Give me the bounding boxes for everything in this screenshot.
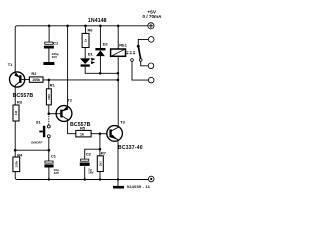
svg-text:R3: R3	[17, 99, 23, 104]
svg-text:024039 - 11: 024039 - 11	[127, 184, 151, 189]
svg-text:RE1: RE1	[119, 42, 127, 47]
svg-text:R7: R7	[101, 151, 106, 156]
svg-text:D2: D2	[103, 41, 109, 46]
svg-text:BC337-40: BC337-40	[118, 145, 143, 151]
svg-text:R4: R4	[17, 152, 23, 157]
svg-text:100k: 100k	[32, 78, 40, 82]
svg-text:1N4148: 1N4148	[88, 18, 107, 24]
svg-text:R6: R6	[88, 27, 94, 32]
svg-text:R1: R1	[50, 83, 56, 88]
svg-text:1k: 1k	[84, 39, 88, 43]
svg-text:1M: 1M	[14, 110, 18, 115]
svg-text:2M2: 2M2	[47, 94, 51, 100]
svg-text:16V: 16V	[88, 171, 94, 175]
svg-text:2k7: 2k7	[98, 161, 102, 166]
svg-text:100k: 100k	[14, 161, 18, 168]
svg-text:10V: 10V	[52, 55, 58, 59]
svg-text:C1: C1	[51, 153, 57, 158]
svg-text:0 / 70mA: 0 / 70mA	[143, 14, 163, 19]
svg-text:16V: 16V	[54, 171, 60, 175]
svg-text:C3: C3	[86, 151, 92, 156]
svg-text:C2: C2	[53, 40, 59, 45]
svg-text:BC557B: BC557B	[70, 122, 91, 128]
svg-text:D1: D1	[88, 52, 94, 57]
svg-text:BC557B: BC557B	[13, 93, 34, 99]
svg-text:T2: T2	[68, 98, 73, 103]
svg-text:S1: S1	[36, 120, 42, 125]
svg-text:T1: T1	[8, 62, 13, 67]
svg-text:ON/OFF: ON/OFF	[31, 141, 42, 145]
svg-text:R2: R2	[31, 71, 37, 76]
svg-text:1k: 1k	[80, 132, 84, 136]
svg-text:T3: T3	[120, 119, 125, 124]
